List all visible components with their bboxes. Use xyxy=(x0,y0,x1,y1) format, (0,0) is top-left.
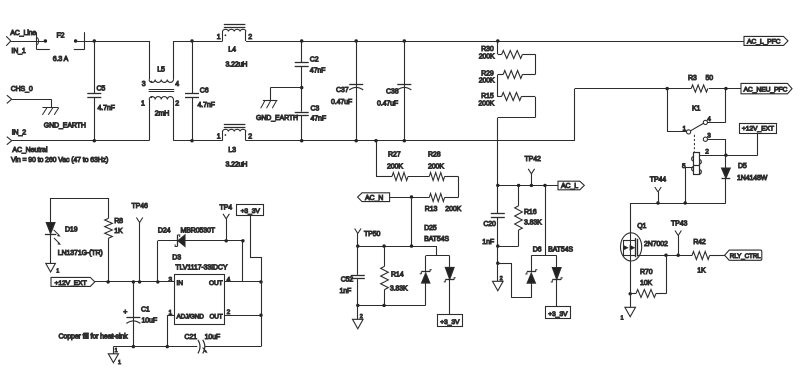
svg-text:+3_3V: +3_3V xyxy=(241,208,261,215)
svg-text:1: 1 xyxy=(118,360,121,366)
svg-text:D5: D5 xyxy=(738,163,747,170)
svg-text:1K: 1K xyxy=(114,228,123,235)
svg-text:TP4: TP4 xyxy=(220,205,233,212)
svg-text:0.47uF: 0.47uF xyxy=(377,101,398,108)
svg-text:GND_EARTH: GND_EARTH xyxy=(44,123,86,130)
svg-text:R29: R29 xyxy=(481,71,494,78)
svg-text:3: 3 xyxy=(142,81,146,88)
svg-text:TLV1117-33IDCY: TLV1117-33IDCY xyxy=(175,265,227,272)
svg-text:200K: 200K xyxy=(479,54,495,61)
svg-text:1: 1 xyxy=(115,348,118,354)
svg-text:BAT54S: BAT54S xyxy=(424,236,449,243)
svg-text:1: 1 xyxy=(683,125,687,132)
svg-text:2: 2 xyxy=(705,148,709,155)
svg-text:1: 1 xyxy=(217,134,221,141)
svg-text:C38: C38 xyxy=(386,89,399,96)
svg-text:OUT: OUT xyxy=(209,313,222,320)
svg-text:C21: C21 xyxy=(184,334,197,341)
svg-text:C3: C3 xyxy=(311,106,320,113)
svg-text:C1: C1 xyxy=(141,307,150,314)
svg-text:1: 1 xyxy=(141,101,145,108)
svg-text:OUT: OUT xyxy=(209,280,223,287)
svg-text:200K: 200K xyxy=(478,101,494,108)
svg-text:+12V_EXT: +12V_EXT xyxy=(55,280,87,287)
svg-text:1: 1 xyxy=(621,316,624,322)
svg-text:AC_L_PFC: AC_L_PFC xyxy=(747,39,781,46)
svg-text:CHS_0: CHS_0 xyxy=(11,86,33,93)
svg-text:3.22uH: 3.22uH xyxy=(226,162,248,169)
svg-text:C6: C6 xyxy=(200,88,209,95)
svg-text:2: 2 xyxy=(360,314,363,320)
svg-text:RLY_CTRL: RLY_CTRL xyxy=(730,253,761,260)
svg-text:2: 2 xyxy=(248,34,252,41)
svg-text:F2: F2 xyxy=(57,33,65,40)
svg-text:R14: R14 xyxy=(391,272,404,279)
svg-text:200K: 200K xyxy=(479,78,495,85)
svg-text:ADJ/GND: ADJ/GND xyxy=(177,313,205,320)
svg-text:200K: 200K xyxy=(428,164,444,171)
svg-text:K1: K1 xyxy=(692,105,701,112)
svg-text:TP44: TP44 xyxy=(650,177,666,184)
svg-text:D3: D3 xyxy=(172,255,181,262)
svg-text:1: 1 xyxy=(56,269,59,275)
svg-text:+12V_EXT: +12V_EXT xyxy=(742,126,774,133)
svg-text:D19: D19 xyxy=(65,227,78,234)
svg-text:3.22uH: 3.22uH xyxy=(226,62,248,69)
svg-text:3.83K: 3.83K xyxy=(390,286,408,293)
svg-text:10K: 10K xyxy=(640,280,653,287)
svg-text:R13: R13 xyxy=(425,206,438,213)
svg-text:IN: IN xyxy=(177,280,184,287)
svg-text:4.7nF: 4.7nF xyxy=(198,102,215,109)
svg-text:C52: C52 xyxy=(341,277,354,284)
svg-text:R3: R3 xyxy=(688,75,697,82)
svg-text:1K: 1K xyxy=(697,267,706,274)
svg-text:D25: D25 xyxy=(424,225,437,232)
svg-text:AC_Neutral: AC_Neutral xyxy=(12,147,48,154)
svg-text:4: 4 xyxy=(227,276,231,283)
svg-text:10uF: 10uF xyxy=(205,334,220,341)
svg-text:TP43: TP43 xyxy=(671,221,687,228)
svg-text:R30: R30 xyxy=(481,46,494,53)
svg-text:AC_L: AC_L xyxy=(561,183,578,190)
svg-text:4: 4 xyxy=(707,116,711,123)
svg-text:2: 2 xyxy=(500,276,503,282)
svg-text:R42: R42 xyxy=(693,239,706,246)
svg-text:R15: R15 xyxy=(481,93,494,100)
svg-text:3.83K: 3.83K xyxy=(524,219,542,226)
svg-text:BAT54S: BAT54S xyxy=(548,246,573,253)
svg-text:3: 3 xyxy=(707,133,711,140)
svg-text:R70: R70 xyxy=(640,269,653,276)
svg-text:47nF: 47nF xyxy=(311,116,326,123)
svg-text:C20: C20 xyxy=(483,221,496,228)
svg-text:4: 4 xyxy=(175,81,179,88)
svg-text:200K: 200K xyxy=(445,206,461,213)
svg-text:TP42: TP42 xyxy=(525,156,541,163)
svg-text:+3_3V: +3_3V xyxy=(440,319,460,326)
svg-text:2N7002: 2N7002 xyxy=(644,241,668,248)
svg-text:200K: 200K xyxy=(387,164,403,171)
svg-text:LN1371G-(TR): LN1371G-(TR) xyxy=(58,250,103,257)
svg-text:10uF: 10uF xyxy=(142,318,157,325)
svg-text:+3_3V: +3_3V xyxy=(548,311,568,318)
svg-text:D6: D6 xyxy=(533,246,542,253)
svg-text:1: 1 xyxy=(217,34,221,41)
svg-text:Q1: Q1 xyxy=(637,223,646,230)
svg-text:R16: R16 xyxy=(524,209,537,216)
svg-text:Copper fill for heat-sink: Copper fill for heat-sink xyxy=(59,334,129,341)
svg-text:C2: C2 xyxy=(310,57,319,64)
svg-text:0.47uF: 0.47uF xyxy=(331,99,352,106)
svg-text:1nF: 1nF xyxy=(339,288,351,295)
svg-text:D24: D24 xyxy=(158,228,171,235)
svg-text:2: 2 xyxy=(248,134,252,141)
svg-text:MBR0530T: MBR0530T xyxy=(181,228,216,235)
svg-text:C5: C5 xyxy=(97,86,106,93)
svg-text:2mH: 2mH xyxy=(155,111,169,118)
svg-text:5: 5 xyxy=(682,163,686,170)
svg-text:C37: C37 xyxy=(336,87,349,94)
svg-text:3: 3 xyxy=(169,276,173,283)
svg-text:6.3 A: 6.3 A xyxy=(53,56,69,63)
svg-text:R8: R8 xyxy=(114,218,123,225)
svg-text:AC_Line: AC_Line xyxy=(10,30,36,37)
svg-text:IN_2: IN_2 xyxy=(12,130,27,137)
svg-text:Vin = 90 to 260 Vac (47 to 6: Vin = 90 to 260 Vac (47 to 63Hz) xyxy=(11,157,108,164)
svg-text:47nF: 47nF xyxy=(310,68,325,75)
svg-text:1N4148W: 1N4148W xyxy=(737,175,768,182)
svg-text:L3: L3 xyxy=(228,147,236,154)
svg-text:4.7nF: 4.7nF xyxy=(98,105,115,112)
svg-text:TP46: TP46 xyxy=(132,203,148,210)
svg-text:AC_NEU_PFC: AC_NEU_PFC xyxy=(744,86,788,93)
svg-text:50: 50 xyxy=(706,75,714,82)
svg-text:IN_1: IN_1 xyxy=(11,48,26,55)
svg-text:L5: L5 xyxy=(157,67,165,74)
svg-text:R28: R28 xyxy=(428,152,441,159)
svg-text:2: 2 xyxy=(175,101,179,108)
svg-text:GND_EARTH: GND_EARTH xyxy=(256,115,298,122)
svg-text:L4: L4 xyxy=(228,47,236,54)
svg-text:1nF: 1nF xyxy=(482,239,494,246)
svg-text:2: 2 xyxy=(227,309,231,316)
svg-text:+: + xyxy=(123,309,127,316)
svg-text:R27: R27 xyxy=(388,152,401,159)
svg-text:TP50: TP50 xyxy=(364,231,380,238)
svg-text:AC_N: AC_N xyxy=(365,195,383,202)
